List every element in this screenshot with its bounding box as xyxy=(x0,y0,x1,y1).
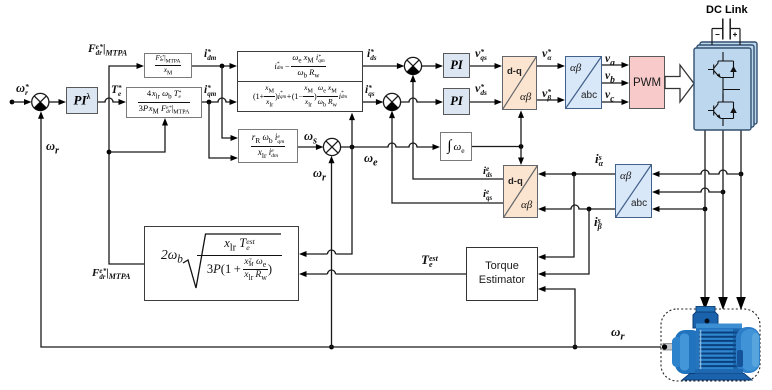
wire va to PWM xyxy=(602,62,629,68)
block PI current controller q-axis xyxy=(443,53,470,78)
label alphabeta upper abc block xyxy=(570,62,581,74)
wire ialpha^s down to torque estimator xyxy=(538,174,574,260)
wire vqs* PI to dq block xyxy=(470,63,502,69)
wire phase c tap to abc block xyxy=(652,206,707,212)
block alphabeta-to-abc voltage transform xyxy=(565,56,602,109)
block arrow PWM to inverter xyxy=(665,65,694,102)
wire ialpha^s to dq current block xyxy=(538,171,615,177)
wire omega_r up to slip junction (from bottom line) xyxy=(329,156,335,350)
label omega_r slip junction xyxy=(313,166,326,184)
wire theta_e integrator output to transforms xyxy=(472,110,524,165)
radical sign MTPA formula xyxy=(183,234,281,288)
wire flux feedback vertical MTPA to Fdr/xM block xyxy=(109,63,144,264)
block MTPA flux calculator xyxy=(144,226,299,301)
label omega_r at speed junction xyxy=(46,139,59,157)
wire torque estimate to MTPA block (hop over omega_r feedback) xyxy=(299,270,466,277)
label valpha* xyxy=(542,46,551,61)
inverter stacked modules xyxy=(694,42,757,130)
wire phase c inverter to motor xyxy=(736,130,746,310)
label alphabeta lower dq block xyxy=(521,199,532,211)
wire vbeta* to alphabeta-abc xyxy=(537,97,565,103)
wire error to PI-lambda xyxy=(49,99,66,105)
label va xyxy=(605,53,615,68)
block PWM modulator xyxy=(629,56,665,109)
label iqm* xyxy=(204,84,216,98)
label omega_r bottom xyxy=(611,324,625,343)
label ibeta^s xyxy=(594,214,602,231)
IGBT upper with freewheel diode xyxy=(708,52,737,78)
motor dotted enclosure xyxy=(661,309,760,381)
label vbeta* xyxy=(542,86,551,101)
block slip frequency calculator xyxy=(238,129,298,163)
label d-q lower block xyxy=(508,176,523,187)
label alphabeta upper dq block xyxy=(520,91,531,103)
inverter internal link and phase tap xyxy=(723,78,740,127)
wire ibeta^s down to torque estimator xyxy=(538,209,589,277)
block torque-to-iqm xyxy=(126,87,202,118)
motor front end-bell xyxy=(672,330,702,374)
label Te est xyxy=(421,252,438,269)
wire omega_e down to MTPA block (hop over omega_r line) xyxy=(299,147,352,257)
block torque estimator xyxy=(466,247,538,301)
motor base xyxy=(682,369,752,380)
wire vds* PI to dq block xyxy=(470,99,502,105)
label omega_e xyxy=(364,151,378,169)
motor terminal box xyxy=(693,307,718,329)
dq current block diagonal xyxy=(504,166,538,218)
label omega_r* reference xyxy=(16,81,29,96)
label iqs^e xyxy=(483,188,492,201)
IGBT lower with freewheel diode xyxy=(708,94,737,119)
motor shaft xyxy=(662,344,679,351)
label d-q upper block xyxy=(507,66,522,77)
label omega_s xyxy=(304,129,317,147)
label iqs* xyxy=(365,84,375,98)
label ialpha^s xyxy=(595,151,603,168)
wire idm* to current command block xyxy=(192,63,237,69)
label abc lower block xyxy=(631,198,647,209)
DC link capacitor xyxy=(712,19,740,46)
wire phase b tap to abc block (hop over phase c) xyxy=(652,188,725,195)
label idm* xyxy=(204,48,216,62)
wire iqm* branch down to slip block xyxy=(209,102,238,161)
block dq-to-alphabeta current transform xyxy=(503,165,538,218)
block abc-to-alphabeta current transform xyxy=(615,164,652,218)
wire phase b inverter to motor xyxy=(718,130,728,310)
block dq-to-alphabeta voltage transform xyxy=(502,56,537,110)
wire Te* PI-lambda to torque block (hop over flux feedback) xyxy=(98,98,126,105)
label Te* xyxy=(111,84,122,98)
block flux-to-idm (Fdr/xM) xyxy=(144,53,192,78)
block integrator xyxy=(440,132,472,161)
wire iqs* to summing junction xyxy=(363,99,383,105)
label Fdr MTPA top xyxy=(88,43,127,57)
wire ibeta^s to dq current block (hop over ialpha drop) xyxy=(538,205,615,212)
label vb xyxy=(605,70,615,85)
wire ids^e feedback up to junction xyxy=(410,75,503,179)
block U1 PI-lambda speed controller xyxy=(66,87,98,114)
label ids* xyxy=(367,48,377,62)
wire iqs error to PI d (hop over ids feedback) xyxy=(401,98,443,105)
label abc upper block xyxy=(581,90,597,101)
wire vc to PWM xyxy=(602,99,629,105)
motor stator body with cooling fins xyxy=(696,324,742,375)
block PI current controller d-axis xyxy=(443,88,470,115)
label vqs* xyxy=(475,46,487,61)
summing junction ids error xyxy=(404,57,421,74)
wire omega_e to integrator (hops over two feedback lines) xyxy=(341,143,440,150)
wire valpha* to alphabeta-abc xyxy=(537,63,565,69)
abc current block diagonal xyxy=(616,165,652,218)
label alphabeta lower abc block xyxy=(620,170,631,182)
wire vb to PWM xyxy=(602,80,629,86)
summing junction iqs error xyxy=(383,93,400,110)
wire omega_r up to torque estimator xyxy=(538,286,577,349)
wire phase a inverter to motor xyxy=(700,130,710,310)
wire rotor speed feedback bottom line xyxy=(38,111,667,349)
wire iqs^e feedback up to junction xyxy=(389,111,503,203)
alphabeta-abc voltage block diagonal xyxy=(566,57,602,109)
wire idm* branch down to slip block xyxy=(222,66,238,141)
wire slip block to slip summing junction xyxy=(298,144,323,150)
wire ids error to PI q xyxy=(422,63,443,69)
label Fdr MTPA bottom xyxy=(92,267,130,281)
wire omega_e up into current command block xyxy=(349,113,355,147)
summing junction speed error xyxy=(32,93,49,110)
block current command calculator xyxy=(237,51,363,112)
motor rear housing xyxy=(736,327,760,373)
node flux feedback branch xyxy=(107,118,168,154)
wire speed reference input xyxy=(10,99,32,105)
dq voltage block diagonal xyxy=(503,57,537,110)
wire ids* to summing junction xyxy=(363,63,404,69)
summing junction slip plus rotor speed xyxy=(323,138,340,155)
label vc xyxy=(605,89,614,104)
wire iqm* to current command block (hop over idm branch) xyxy=(202,98,237,105)
wire phase a tap to abc block (hops over phases b,c) xyxy=(652,170,743,177)
label DC Link xyxy=(706,4,748,16)
label vds* xyxy=(475,81,487,96)
label ids^e xyxy=(483,165,492,178)
